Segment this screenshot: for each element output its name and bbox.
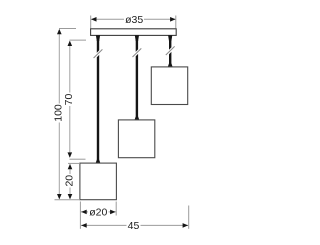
dim ø20 extension line left (shared with 45) — [79, 202, 81, 229]
dim 45 line right segment — [141, 224, 189, 226]
dim 45 arrow left — [81, 223, 87, 228]
strain relief right — [168, 35, 172, 41]
dim 100 line — [58, 30, 60, 199]
dim ø20 extension line right — [115, 202, 117, 216]
dim 70 top tick — [70, 39, 87, 41]
svg-text:ø35: ø35 — [125, 14, 143, 26]
dim 20 top tick — [68, 162, 80, 164]
canopy plate — [91, 29, 177, 36]
dim 70 arrow up — [68, 41, 73, 46]
shade holder left — [96, 160, 101, 163]
dim 100 arrow down — [57, 194, 62, 199]
cord right — [169, 40, 171, 64]
dim ø20 line left stub — [81, 211, 88, 213]
shade middle — [118, 120, 154, 158]
dim ø20 arrow left — [81, 210, 87, 215]
dim 70 line — [69, 42, 71, 158]
svg-text:70: 70 — [63, 94, 75, 106]
dim 70 bottom tick — [70, 158, 86, 160]
cord break mark left — [95, 51, 101, 57]
dim ø35 line left segment — [91, 18, 124, 20]
dim 100 arrow up — [57, 29, 62, 34]
dim 45 line left segment — [81, 224, 127, 226]
cord break mark right — [167, 48, 173, 54]
dim ø35 arrow right — [170, 17, 176, 22]
dim 20 arrow up — [68, 164, 73, 169]
cord left — [97, 40, 99, 160]
dim 70 label — [64, 93, 75, 107]
shade holder middle — [135, 117, 140, 121]
dim ø35 line right segment — [144, 18, 175, 20]
bottom shared tick — [55, 199, 81, 201]
dim 100 top tick — [59, 28, 76, 30]
strain relief middle — [135, 35, 139, 41]
dim ø35 arrow left — [91, 17, 97, 22]
dim 20 label — [64, 174, 75, 188]
dim 70 arrow down — [68, 152, 73, 157]
strain relief left — [96, 35, 100, 41]
dim ø35 extension line right — [175, 16, 177, 29]
dim 45 arrow right — [183, 223, 189, 228]
shade left — [80, 163, 117, 200]
dim 45 extension line right — [188, 206, 190, 229]
dim 20 arrow down — [68, 194, 73, 199]
cord break mark middle — [134, 50, 140, 56]
dim ø35 extension line left — [90, 16, 92, 29]
svg-text:45: 45 — [128, 220, 140, 232]
dim 100 label — [53, 104, 64, 123]
svg-text:100: 100 — [53, 104, 65, 122]
dim ø20 arrow right — [110, 210, 116, 215]
cord middle — [136, 40, 138, 117]
dim ø20 line right stub — [109, 211, 116, 213]
shade holder right — [168, 63, 173, 67]
svg-text:20: 20 — [63, 175, 75, 187]
svg-text:ø20: ø20 — [89, 207, 107, 219]
shade right — [151, 67, 187, 105]
dim 20 line — [69, 165, 71, 199]
